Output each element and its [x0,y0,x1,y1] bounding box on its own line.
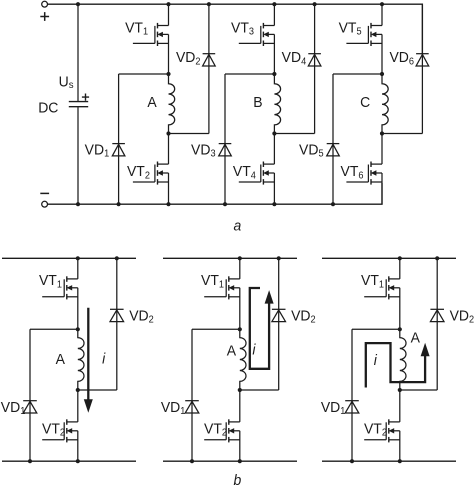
wire: winding bottom to VD2 branch [78,389,117,391]
node: leg bottom [398,459,402,463]
node: capacitor / top rail [76,2,80,6]
node: winding C top [380,72,384,76]
inductor phase winding C [382,74,388,134]
wire: VD2 branch [116,258,118,390]
terminal + (top left) [42,1,48,7]
wire: VT4 source to -rail [273,173,275,204]
wire: VD1 branch [191,329,193,461]
diode VD2 [272,309,286,321]
node: phase B top [272,2,276,6]
transistor VT4 [239,162,275,185]
wire: VD2 branch [208,4,210,133]
transistor VT2 [364,419,400,442]
node: leg top [398,256,402,260]
svg-text:b: b [233,473,241,486]
wire: VD1 branch [29,329,31,461]
wire: VD2 branch [278,258,280,390]
node: winding A bottom [166,131,170,135]
node: leg bottom [238,459,242,463]
node: phase B bottom [272,202,276,206]
wire: VD5 branch [332,74,334,204]
diode VD2 [110,309,124,321]
wire: winding bottom to VD2 branch [400,389,437,391]
capacitor wire upper [77,4,79,101]
wire: VT2 source to -rail [77,431,79,461]
diode VD2 [430,309,444,321]
node: leg top [76,256,80,260]
wire: winding bottom to VD2 branch [240,389,279,391]
top rail (+) [2,257,136,259]
svg-text:DC: DC [38,100,58,117]
label + (supply positive) [40,12,49,21]
wire: VD1 branch [118,74,120,204]
wire: winding bottom to VT2 drain [239,390,241,422]
diode VD1 [112,144,125,156]
node: phase A top [166,2,170,6]
wire: winding bottom to VD6 branch [382,133,422,135]
wire: VD4 branch [314,4,316,133]
transistor VT2 [204,419,240,442]
current path i (loop through winding) [366,343,425,387]
wire: +rail to VT1 drain [399,258,401,279]
wire: winding bottom to VD2 branch [169,133,209,135]
inductor phase winding B [274,74,280,134]
inductor phase winding A [78,329,84,390]
wire: winding bottom to VT2 drain [77,390,79,422]
diode VD4 [308,54,321,66]
bottom rail (-) [2,460,136,462]
wire: winding bottom to VD4 branch [274,133,314,135]
capacitor C (DC link) [69,102,88,107]
wire: VT1 source to winding A [399,288,401,330]
node: phase A bottom [166,202,170,206]
wire: VT6 source to -rail [381,173,383,204]
svg-text:A: A [147,94,157,111]
transistor VT2 [42,419,78,442]
inductor phase winding A [169,74,175,134]
bottom rail (-) [45,183,382,204]
wire: winding top to VD1 branch [119,73,169,75]
node: winding A top [238,327,242,331]
wire: VT1 source to winding A [168,34,170,74]
node: VD5 / -rail [331,202,335,206]
wire: winding top to VD5 branch [333,73,382,75]
wire: winding bottom to VT2 drain [168,134,170,165]
wire: VD3 branch [224,74,226,204]
label + (capacitor polarity) [82,94,89,101]
wire: winding top to VD1 branch [192,328,240,330]
wire: VT1 source to winding A [77,288,79,330]
wire: +rail to VT1 drain [77,258,79,279]
wire: VT2 source to -rail [168,173,170,204]
node: leg top [238,256,242,260]
node: winding A bottom [76,388,80,392]
node: phase C top [380,2,384,6]
node: VD1 / -rail [190,459,194,463]
transistor VT1 [204,276,240,299]
inductor phase winding A [400,329,406,390]
svg-text:C: C [360,94,370,111]
wire: VT1 source to winding A [239,288,241,330]
transistor VT2 [133,162,169,185]
wire: winding top to VD1 branch [30,328,78,330]
wire: VD6 branch [421,4,423,133]
node: VD3 / -rail [223,202,227,206]
top rail (+) [45,4,423,54]
transistor VT5 [346,23,382,46]
diode VD1 [345,401,359,413]
label - (supply negative) [40,192,49,194]
wire: +rail to VT5 drain [381,4,383,25]
node: capacitor / bottom rail [76,202,80,206]
inductor phase winding A [240,329,246,390]
transistor VT1 [42,276,78,299]
wire: +rail to VT1 drain [168,4,170,25]
wire: +rail to VT1 drain [239,258,241,279]
diode VD1 [185,401,199,413]
current arrow i (down through winding) [87,308,89,401]
node: VD2 / +rail [115,256,119,260]
diode VD6 [416,54,429,66]
svg-text:B: B [253,94,262,111]
node: winding A top [166,72,170,76]
top rail (+) [163,257,297,259]
svg-text:a: a [233,218,241,235]
diode VD2 [203,54,216,66]
wire: winding top to VD1 branch [352,328,400,330]
wire: winding bottom to VT6 drain [381,134,383,165]
capacitor wire lower [77,107,79,205]
node: winding B bottom [272,131,276,135]
wire: winding top to VD3 branch [225,73,274,75]
terminal - (bottom left) [42,201,48,207]
wire: VD2 branch [436,258,438,390]
diode VD3 [219,144,232,156]
bottom rail (-) [163,460,297,462]
node: winding C bottom [380,131,384,135]
node: winding A bottom [398,388,402,392]
wire: winding bottom to VT4 drain [273,134,275,165]
node: leg bottom [76,459,80,463]
node: winding B top [272,72,276,76]
transistor VT1 [364,276,400,299]
node: VD4 / +rail [313,2,317,6]
node: VD1 / -rail [28,459,32,463]
diode VD1 [23,401,37,413]
node: VD2 / +rail [277,256,281,260]
svg-text:A: A [411,330,421,347]
wire: VT3 source to winding B [273,34,275,74]
node: VD1 / -rail [117,202,121,206]
node: winding A top [398,327,402,331]
wire: VT5 source to winding C [381,34,383,74]
wire: winding bottom to VT2 drain [399,390,401,422]
bottom rail (-) [322,460,456,462]
transistor VT1 [133,23,169,46]
transistor VT6 [346,162,382,185]
wire: VT2 source to -rail [399,431,401,461]
node: winding A bottom [238,388,242,392]
current path i (freewheel up through VD2) [250,288,269,369]
wire: +rail to VT3 drain [273,4,275,25]
wire: VD1 branch [351,329,353,461]
node: VD2 / +rail [435,256,439,260]
svg-text:A: A [56,351,66,368]
diode VD5 [327,144,340,156]
wire: VT2 source to -rail [239,431,241,461]
node: VD2 / +rail [207,2,211,6]
transistor VT3 [239,23,275,46]
node: VD1 / -rail [350,459,354,463]
svg-text:A: A [227,343,237,360]
top rail (+) [322,257,456,259]
node: winding A top [76,327,80,331]
